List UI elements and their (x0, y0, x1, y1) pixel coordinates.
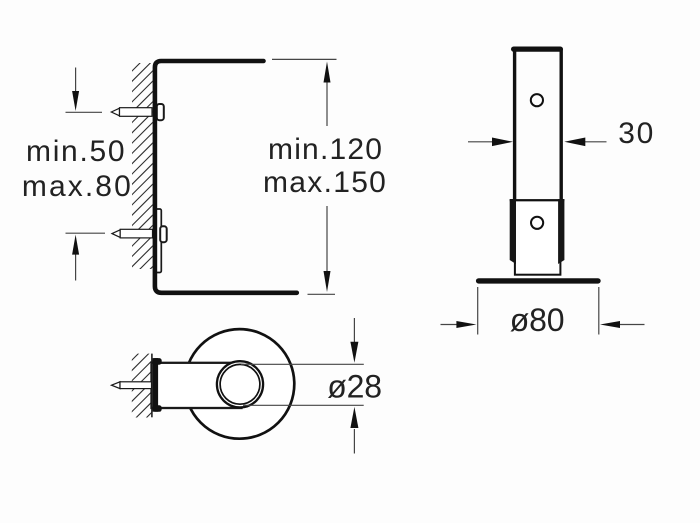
dimension 30 (post width) (468, 141, 494, 143)
screw (lower, side view) (112, 229, 153, 238)
wall edge line (top view) (151, 354, 153, 418)
tube inner ring (220, 364, 260, 404)
wall hatching (top view) (128, 338, 154, 436)
screw (upper, side view) (111, 108, 152, 117)
base plate (479, 278, 598, 283)
post top cap (514, 46, 561, 51)
dimension ø28 (tube) (241, 318, 364, 454)
svg-text:30: 30 (618, 117, 655, 150)
arrowhead down (dim ø28 top) (350, 342, 358, 363)
arrowhead left (dim 30 right) (564, 138, 585, 147)
bracket body (back bar + top arm + bottom arm) (155, 61, 297, 293)
arrowhead right (dim 30 left) (492, 138, 513, 147)
clip bump (upper, side view) (157, 104, 164, 120)
sleeve left bar (510, 199, 516, 260)
dimension min.120/max.150 (right of side view) (272, 59, 337, 294)
svg-text:ø28: ø28 (327, 369, 382, 405)
arm (top view) (152, 363, 242, 408)
arrowhead up (left dim, lower) (72, 235, 79, 255)
wall hatching (side view) (130, 48, 155, 289)
wall plate (top view) (153, 358, 162, 412)
arrowhead left (dim ø80 right) (600, 321, 620, 328)
sleeve bar taper (left) (510, 260, 516, 264)
arrowhead up (dim ø28 bottom) (350, 407, 358, 428)
wall plate (lower, side view) (155, 209, 161, 273)
sleeve bar taper (right) (558, 260, 564, 264)
svg-text:min.50: min.50 (26, 135, 126, 168)
svg-text:min.120: min.120 (268, 133, 383, 166)
roll holder disc (big circle) (185, 329, 295, 439)
svg-text:max.80: max.80 (22, 170, 133, 203)
arrowhead right (dim ø80 left) (456, 321, 476, 328)
arrowhead up (right dim, top) (324, 62, 331, 83)
post right edge (560, 49, 563, 201)
post left edge (513, 49, 516, 201)
dimension ø80 (base) (441, 287, 645, 335)
sleeve outline (510, 200, 565, 275)
lower hole (531, 217, 543, 229)
clip bump (lower, side view) (160, 226, 167, 242)
upper hole (531, 94, 543, 106)
screw (top view) (112, 382, 152, 389)
tube outer ring (217, 361, 263, 407)
svg-text:max.150: max.150 (263, 166, 387, 199)
sleeve right bar (558, 199, 564, 260)
svg-text:ø80: ø80 (510, 302, 565, 338)
arrowhead down (left dim, upper) (72, 91, 79, 111)
dimension min.50/max.80 (left) (66, 68, 106, 281)
arrowhead down (right dim, bottom) (324, 271, 331, 292)
